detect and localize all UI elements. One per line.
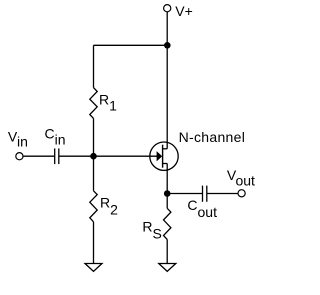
- svg-text:N-channel: N-channel: [179, 129, 246, 145]
- svg-text:V+: V+: [175, 3, 193, 19]
